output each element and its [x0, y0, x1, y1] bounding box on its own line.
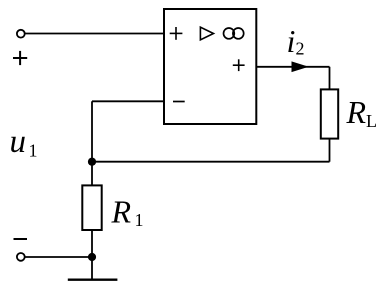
wire node to R1 [91, 162, 93, 185]
wire node B to ground [91, 257, 93, 280]
resistor R1 [82, 185, 101, 230]
wire - input down to node [91, 101, 93, 161]
op-amp + input marking [170, 27, 183, 40]
wire output down to RL [329, 67, 331, 89]
wire bottom input [25, 256, 92, 258]
wire feedback horizontal [92, 161, 330, 163]
ground [68, 279, 118, 281]
label + (source polarity) [13, 51, 27, 65]
svg-text:1: 1 [135, 210, 144, 230]
svg-text:u: u [10, 124, 27, 160]
node junction B [88, 253, 96, 261]
svg-text:2: 2 [296, 39, 305, 59]
op-amp output + marking [233, 59, 245, 71]
wire output [256, 66, 330, 68]
arrowhead i2 [292, 62, 307, 71]
svg-text:i: i [287, 23, 296, 59]
resistor RL [321, 89, 338, 138]
node junction A [88, 158, 96, 166]
op-amp - input marking [173, 101, 185, 103]
wire RL bottom down [329, 139, 331, 162]
op-amp triangle symbol [200, 27, 213, 40]
op-amp U1 [164, 9, 256, 124]
wire - input horizontal [92, 100, 164, 102]
label - (source polarity) [14, 238, 28, 240]
wire R1 bottom to node B [91, 230, 93, 257]
svg-text:1: 1 [29, 141, 38, 161]
terminal T2 (- input, bottom-left) [17, 253, 25, 261]
op-amp infinity gain symbol [224, 28, 244, 39]
wire top input [25, 33, 163, 35]
svg-text:R: R [346, 94, 367, 130]
svg-text:R: R [111, 194, 132, 230]
svg-text:L: L [366, 111, 377, 131]
terminal T1 (+ input, top-left) [17, 30, 25, 38]
